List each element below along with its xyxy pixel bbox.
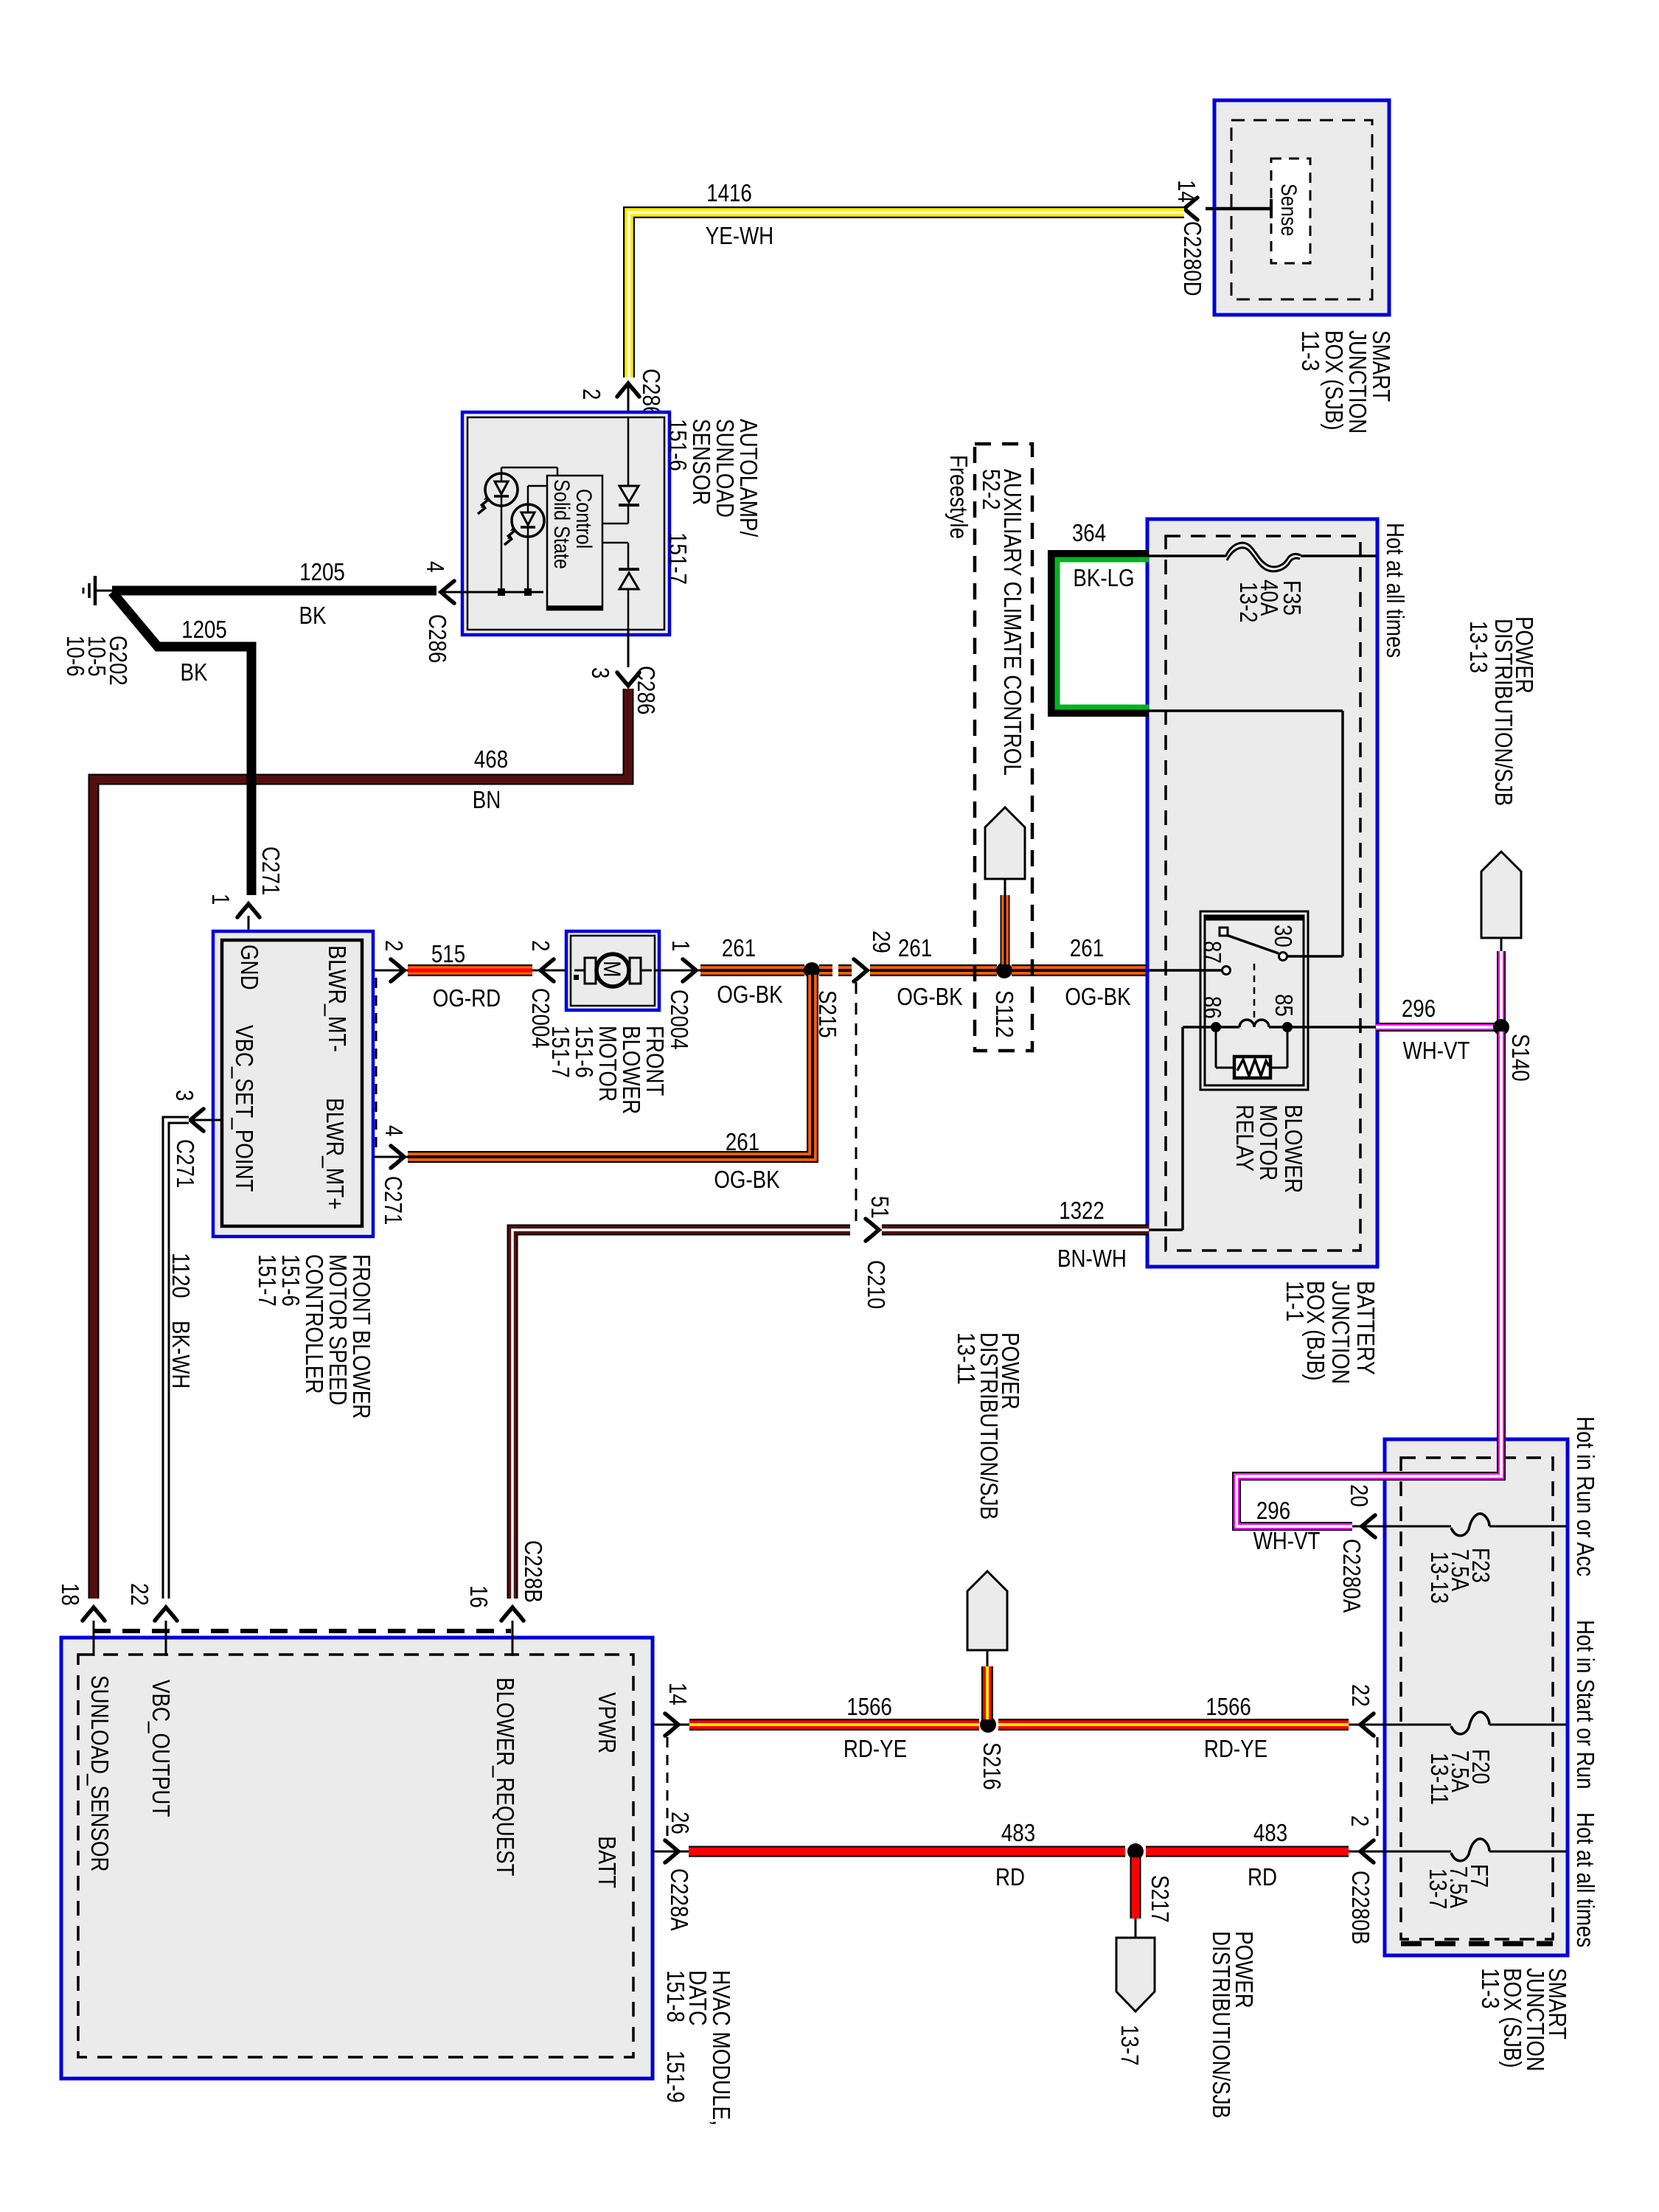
battery junction box (BJB) 11-1 bbox=[1147, 519, 1377, 1267]
label BN-WH bbox=[1057, 1245, 1127, 1272]
splice S215 bbox=[804, 962, 820, 978]
SJB connector dashed link bbox=[1377, 1737, 1379, 1842]
svg-text:RD-YE: RD-YE bbox=[844, 1735, 907, 1762]
svg-text:S112: S112 bbox=[991, 990, 1018, 1038]
svg-text:14: 14 bbox=[664, 1683, 692, 1705]
label 296 b bbox=[1256, 1497, 1290, 1524]
svg-text:11-1: 11-1 bbox=[1281, 1281, 1309, 1322]
connector C286 pin 3 arrow bbox=[617, 630, 639, 686]
svg-text:M: M bbox=[599, 961, 625, 977]
label BN bbox=[473, 786, 501, 813]
wire SJB row1 bbox=[1385, 1526, 1566, 1528]
label Hot at all times bottom bbox=[1572, 1812, 1599, 1947]
wire 261 OG-BK motor to S215 bbox=[700, 964, 804, 976]
label YE-WH bbox=[706, 222, 773, 249]
svg-text:151-7: 151-7 bbox=[254, 1254, 281, 1307]
label 1120 bbox=[167, 1253, 195, 1298]
label S140 bbox=[1507, 1034, 1534, 1082]
wire pentagon to S140 bbox=[1500, 938, 1503, 1023]
connector C228 pin 22 arrow bbox=[155, 1607, 177, 1656]
svg-text:13-13: 13-13 bbox=[1426, 1551, 1453, 1604]
svg-text:296: 296 bbox=[1402, 995, 1436, 1022]
svg-text:VBC_SET_POINT: VBC_SET_POINT bbox=[231, 1025, 258, 1192]
svg-text:C271: C271 bbox=[380, 1176, 407, 1225]
connector C210 label bbox=[863, 1260, 890, 1309]
svg-text:BN-WH: BN-WH bbox=[1057, 1245, 1127, 1272]
wire Sense to pin 14 bbox=[1206, 199, 1271, 218]
label RD-YE b bbox=[1204, 1735, 1267, 1762]
relay switch arm bbox=[1226, 935, 1279, 953]
label 1416 bbox=[706, 179, 752, 206]
label 1205 b bbox=[181, 616, 227, 643]
wire 296 WH-VT BJB to S140 bbox=[1376, 1023, 1497, 1032]
connector C286 pin 4 arrow bbox=[441, 581, 467, 603]
relay pin 30 label bbox=[1270, 925, 1297, 947]
svg-text:26: 26 bbox=[667, 1812, 694, 1834]
label F7 7.5A 13-7 bbox=[1425, 1864, 1493, 1910]
svg-text:85: 85 bbox=[1270, 994, 1298, 1017]
label Hot in Run or Acc bbox=[1572, 1416, 1599, 1576]
svg-text:2: 2 bbox=[527, 940, 554, 951]
label 1566 a bbox=[846, 1693, 892, 1720]
label RD a bbox=[995, 1863, 1025, 1891]
connector C2280D pin 14 arrow bbox=[1184, 198, 1197, 220]
svg-text:52-2: 52-2 bbox=[978, 469, 1005, 510]
fuse F20 bbox=[1451, 1712, 1489, 1734]
pin 2 label controller bbox=[380, 940, 408, 951]
svg-text:C286: C286 bbox=[424, 614, 451, 663]
wire 296 WH-VT S140 to SJB bbox=[1237, 1032, 1501, 1526]
diode D2 bbox=[602, 543, 639, 630]
svg-text:AUXILIARY CLIMATE CONTROL: AUXILIARY CLIMATE CONTROL bbox=[999, 469, 1026, 776]
label 261 fourth bbox=[726, 1128, 759, 1155]
pin 22 label HVAC bbox=[126, 1583, 153, 1606]
svg-text:11-3: 11-3 bbox=[1477, 1968, 1504, 2009]
svg-text:13-13: 13-13 bbox=[1465, 621, 1492, 673]
connector C2280D label bbox=[1179, 221, 1206, 296]
svg-text:Sense: Sense bbox=[1276, 184, 1301, 236]
pin 2 label bbox=[578, 389, 605, 400]
svg-text:C2004: C2004 bbox=[666, 990, 693, 1050]
svg-text:BATTERY: BATTERY bbox=[1352, 1281, 1380, 1375]
connector C271 label pin4 bbox=[380, 1176, 407, 1225]
connector C228A label bbox=[666, 1868, 693, 1931]
svg-text:YE-WH: YE-WH bbox=[706, 222, 773, 249]
label FRONT BLOWER MOTOR 151-6 151-7 bbox=[547, 1026, 669, 1114]
auxiliary climate control dashed box bbox=[975, 444, 1032, 1051]
svg-text:1: 1 bbox=[207, 894, 234, 905]
wire hot feed to fuse F35 bbox=[1149, 554, 1376, 557]
label BLWR_MT+ bbox=[321, 1098, 349, 1210]
svg-text:Hot in Run or Acc: Hot in Run or Acc bbox=[1572, 1416, 1599, 1576]
svg-text:C2280A: C2280A bbox=[1338, 1539, 1366, 1613]
svg-text:151-7: 151-7 bbox=[547, 1026, 574, 1078]
smart junction box (SJB) 11-3 top bbox=[1214, 100, 1389, 315]
label VPWR bbox=[594, 1692, 621, 1753]
wire SJB row3 bbox=[1385, 1851, 1566, 1853]
svg-text:Solid State: Solid State bbox=[549, 479, 574, 569]
connector C271 label pin3 bbox=[172, 1139, 199, 1188]
label Freestyle bbox=[945, 455, 973, 539]
svg-text:86: 86 bbox=[1199, 996, 1226, 1019]
svg-text:BK: BK bbox=[299, 602, 327, 629]
svg-text:Hot at all times: Hot at all times bbox=[1572, 1812, 1599, 1947]
svg-text:C210: C210 bbox=[863, 1260, 890, 1309]
HVAC connector dashed link bbox=[667, 1737, 669, 1842]
label BATTERY JUNCTION BOX (BJB) 11-1 bbox=[1281, 1281, 1380, 1384]
connector C286 label pin3 bbox=[633, 666, 660, 714]
svg-text:151-7: 151-7 bbox=[664, 532, 692, 585]
label BK-WH bbox=[167, 1321, 195, 1388]
label OG-RD bbox=[433, 984, 501, 1012]
svg-text:C271: C271 bbox=[172, 1139, 199, 1188]
label FRONT BLOWER MOTOR SPEED CONTROLLER 151-6 151-7 bbox=[254, 1254, 375, 1419]
relay pin 87 label bbox=[1199, 941, 1226, 964]
svg-text:151-6: 151-6 bbox=[664, 419, 692, 471]
pin 29 label bbox=[868, 931, 895, 953]
svg-text:151-9: 151-9 bbox=[662, 2051, 689, 2103]
svg-text:29: 29 bbox=[868, 931, 895, 953]
connector C2280B pin 22 arrow bbox=[1349, 1714, 1385, 1736]
svg-text:261: 261 bbox=[898, 934, 932, 961]
connector C210 pin 51 arrow bbox=[866, 1219, 879, 1241]
svg-text:51: 51 bbox=[866, 1196, 894, 1219]
svg-text:OG-BK: OG-BK bbox=[717, 981, 782, 1008]
svg-text:DISTRIBUTION/SJB: DISTRIBUTION/SJB bbox=[1490, 619, 1517, 806]
svg-text:BLOWER_REQUEST: BLOWER_REQUEST bbox=[492, 1677, 519, 1877]
svg-text:11-3: 11-3 bbox=[1297, 330, 1324, 372]
label OG-BK first bbox=[717, 981, 782, 1008]
photodiode PD2 bbox=[504, 504, 544, 545]
svg-text:4: 4 bbox=[380, 1125, 408, 1136]
connector C271 pin 2 arrow bbox=[373, 959, 408, 981]
svg-text:WH-VT: WH-VT bbox=[1403, 1037, 1470, 1064]
connector C2004 pin 1 arrow bbox=[655, 959, 700, 981]
svg-text:22: 22 bbox=[126, 1583, 153, 1606]
splice S216 bbox=[980, 1717, 996, 1733]
relay shunt resistor bbox=[1216, 1027, 1287, 1078]
svg-text:30: 30 bbox=[1270, 925, 1297, 947]
wire 261 OG-BK S112 to BJB bbox=[1012, 964, 1149, 976]
svg-text:Hot at all times: Hot at all times bbox=[1382, 523, 1409, 658]
connector C286 label pin4 bbox=[424, 614, 451, 663]
svg-text:13-7: 13-7 bbox=[1116, 2025, 1144, 2066]
blower motor relay box bbox=[1200, 911, 1308, 1090]
label AUXILIARY CLIMATE CONTROL 52-2 bbox=[978, 469, 1026, 776]
wire 1416 YE-WH bbox=[629, 212, 1184, 378]
svg-text:DISTRIBUTION/SJB: DISTRIBUTION/SJB bbox=[1208, 1931, 1235, 2118]
connector C210 pin 29 arrow bbox=[854, 959, 867, 981]
label GND bbox=[236, 945, 263, 990]
svg-text:C286: C286 bbox=[638, 369, 665, 417]
label G202 10-5 10-6 bbox=[62, 636, 132, 686]
pin 20 label bbox=[1346, 1484, 1373, 1507]
svg-text:4: 4 bbox=[422, 561, 449, 572]
label 515 bbox=[431, 940, 465, 967]
connector C271 label pin1 bbox=[257, 846, 285, 895]
sensor internal wiring bbox=[467, 467, 557, 592]
svg-text:468: 468 bbox=[474, 745, 508, 773]
label AUTOLAMP/ SUNLOAD SENSOR 151-6 151-7 bbox=[664, 419, 762, 585]
wire SJB row2 bbox=[1385, 1724, 1566, 1726]
svg-text:SUNLOAD_SENSOR: SUNLOAD_SENSOR bbox=[86, 1675, 114, 1872]
label RD-YE a bbox=[844, 1735, 907, 1762]
pin 3 label controller bbox=[171, 1090, 198, 1101]
pin 4 label bbox=[422, 561, 449, 572]
pin 4 label controller bbox=[380, 1125, 408, 1136]
label POWER DISTRIBUTION/SJB 13-13 bbox=[1465, 616, 1538, 806]
connector C2280A label bbox=[1338, 1539, 1366, 1613]
relay coil bbox=[1220, 1020, 1283, 1027]
label OG-BK third bbox=[1065, 983, 1130, 1010]
svg-text:VPWR: VPWR bbox=[594, 1692, 621, 1753]
svg-text:483: 483 bbox=[1253, 1819, 1287, 1846]
svg-text:BLWR_MT-: BLWR_MT- bbox=[324, 945, 351, 1052]
connector C228B pin 16 arrow bbox=[501, 1607, 524, 1656]
svg-text:2: 2 bbox=[380, 940, 408, 951]
svg-text:VBC_OUTPUT: VBC_OUTPUT bbox=[147, 1680, 175, 1817]
connector C210 dashed line bbox=[855, 982, 858, 1222]
connector C271 pin 4 arrow bbox=[373, 1146, 408, 1168]
S216 connector pentagon bbox=[967, 1571, 1007, 1650]
label 261 second bbox=[898, 934, 932, 961]
wire 483 RD right bbox=[1146, 1846, 1349, 1857]
ground G202 symbol bbox=[83, 576, 115, 605]
label WH-VT a bbox=[1403, 1037, 1470, 1064]
HVAC module DATC box bbox=[61, 1638, 653, 2079]
wire 515 OG-RD bbox=[408, 964, 532, 976]
wire C228B BN-WH vertical bbox=[512, 1230, 850, 1599]
diode D1 bbox=[602, 417, 639, 524]
wire 1205 BK to sensor bbox=[112, 586, 437, 596]
svg-text:S216: S216 bbox=[978, 1742, 1006, 1790]
relay pin 86 label bbox=[1199, 996, 1226, 1019]
svg-text:S217: S217 bbox=[1147, 1875, 1174, 1923]
connector C228A pin 14 arrow bbox=[653, 1714, 689, 1736]
svg-text:GND: GND bbox=[236, 945, 263, 990]
svg-text:BATT: BATT bbox=[594, 1836, 621, 1888]
label S215 bbox=[814, 990, 841, 1038]
connector C271 pin 1 arrow bbox=[237, 904, 260, 941]
label 483 a bbox=[1001, 1819, 1035, 1846]
pin 3 label bbox=[587, 667, 614, 678]
svg-text:RD: RD bbox=[1248, 1863, 1277, 1891]
pin 16 label bbox=[465, 1585, 493, 1608]
svg-text:1120: 1120 bbox=[167, 1253, 195, 1298]
pin 2 label motor bbox=[527, 940, 554, 951]
pin 22 label SJB bbox=[1347, 1684, 1374, 1707]
label RD b bbox=[1248, 1863, 1277, 1891]
svg-text:C2280B: C2280B bbox=[1347, 1871, 1374, 1944]
label BLOWER_REQUEST bbox=[492, 1677, 519, 1877]
svg-text:261: 261 bbox=[722, 934, 756, 961]
label SUNLOAD_SENSOR bbox=[86, 1675, 114, 1872]
label S112 bbox=[991, 990, 1018, 1038]
svg-text:OG-BK: OG-BK bbox=[714, 1166, 779, 1193]
label SMART JUNCTION BOX (SJB) 11-3 bottom bbox=[1477, 1968, 1571, 2071]
label S217 bbox=[1147, 1875, 1174, 1923]
svg-text:1416: 1416 bbox=[706, 179, 752, 206]
HVAC top dashed connector line bbox=[93, 1629, 511, 1633]
svg-text:483: 483 bbox=[1001, 1819, 1035, 1846]
connector C2004 label left bbox=[527, 988, 554, 1048]
svg-text:Freestyle: Freestyle bbox=[945, 455, 973, 539]
label 261 third bbox=[1070, 934, 1104, 961]
S140 connector pentagon bbox=[1481, 852, 1521, 938]
svg-text:87: 87 bbox=[1199, 941, 1226, 964]
label 468 bbox=[474, 745, 508, 773]
connector C286 label top bbox=[638, 369, 665, 417]
connector C2004 pin 2 arrow bbox=[532, 959, 568, 981]
relay actuator dashed link bbox=[1253, 964, 1256, 1020]
wire feed to relay 30 bbox=[1149, 711, 1343, 956]
relay pivot 87 bbox=[1220, 928, 1228, 936]
svg-text:14: 14 bbox=[1173, 180, 1200, 203]
svg-text:1205: 1205 bbox=[181, 616, 227, 643]
pin 1 label bbox=[207, 894, 234, 905]
svg-text:261: 261 bbox=[726, 1128, 759, 1155]
connector C228A pin 26 arrow bbox=[653, 1840, 689, 1863]
svg-text:Hot in Start or Run: Hot in Start or Run bbox=[1572, 1620, 1599, 1790]
wire 483 RD left bbox=[689, 1846, 1125, 1857]
junction squares bbox=[498, 588, 532, 596]
label F35 40A 13-2 bbox=[1235, 580, 1306, 623]
splice S112 bbox=[996, 962, 1012, 978]
aux connector pentagon bbox=[985, 807, 1025, 879]
svg-text:13-7: 13-7 bbox=[1425, 1868, 1452, 1910]
motor symbol M bbox=[574, 954, 652, 987]
wire 1566 RD-YE right bbox=[998, 1719, 1349, 1731]
wire 261 dashes at C210 bbox=[819, 964, 852, 976]
svg-text:2: 2 bbox=[578, 389, 605, 400]
pin 18 label bbox=[57, 1583, 84, 1606]
svg-text:BK-WH: BK-WH bbox=[167, 1321, 195, 1388]
S217 connector pentagon bbox=[1116, 1938, 1155, 2011]
label F23 7.5A 13-13 bbox=[1426, 1548, 1495, 1604]
connector C2280A pin 20 arrow bbox=[1352, 1515, 1385, 1537]
svg-text:S140: S140 bbox=[1507, 1034, 1534, 1082]
label BK b bbox=[181, 658, 208, 686]
wire 1120 BK-WH bbox=[166, 1120, 189, 1599]
pin 14 label bbox=[1173, 180, 1200, 203]
connector C2280B label bbox=[1347, 1871, 1374, 1944]
wire to S112 bbox=[1004, 879, 1006, 964]
label OG-BK second bbox=[897, 983, 962, 1010]
label BLOWER MOTOR RELAY bbox=[1231, 1105, 1307, 1193]
fuse F23 bbox=[1451, 1514, 1489, 1536]
svg-text:296: 296 bbox=[1256, 1497, 1290, 1524]
svg-text:13-11: 13-11 bbox=[953, 1332, 980, 1385]
svg-text:BK: BK bbox=[181, 658, 208, 686]
relay coil junction 85 bbox=[1282, 1022, 1293, 1032]
svg-text:OG-BK: OG-BK bbox=[897, 983, 962, 1010]
svg-text:C228A: C228A bbox=[666, 1868, 693, 1931]
photodiode PD1 bbox=[478, 473, 518, 514]
svg-text:16: 16 bbox=[465, 1585, 493, 1608]
svg-text:BK-LG: BK-LG bbox=[1073, 564, 1134, 591]
label HVAC MODULE DATC 151-8 151-9 bbox=[662, 1970, 735, 2126]
pin 14 label HVAC bbox=[664, 1683, 692, 1705]
label BLWR_MT- bbox=[324, 945, 351, 1052]
svg-text:1: 1 bbox=[667, 940, 695, 951]
fuse F35 bbox=[1225, 543, 1301, 571]
svg-text:BN: BN bbox=[473, 786, 501, 813]
smart junction box (SJB) 11-3 bottom bbox=[1385, 1439, 1568, 1955]
wire 468 BN bbox=[94, 689, 628, 1599]
wire 261 OG-BK S215 to S112 bbox=[870, 964, 997, 976]
svg-text:20: 20 bbox=[1346, 1484, 1373, 1507]
label 1322 bbox=[1059, 1197, 1105, 1224]
svg-text:RD: RD bbox=[995, 1863, 1025, 1891]
svg-text:3: 3 bbox=[171, 1090, 198, 1101]
label POWER DISTRIBUTION/SJB 13-11 bbox=[953, 1332, 1024, 1520]
svg-text:10-6: 10-6 bbox=[62, 636, 89, 677]
svg-text:1205: 1205 bbox=[299, 558, 345, 585]
svg-text:OG-BK: OG-BK bbox=[1065, 983, 1130, 1010]
label SMART JUNCTION BOX (SJB) 11-3 bbox=[1297, 330, 1395, 434]
svg-text:18: 18 bbox=[57, 1583, 84, 1606]
svg-text:WH-VT: WH-VT bbox=[1253, 1527, 1321, 1554]
wire S217 down bbox=[1130, 1857, 1141, 1938]
label F20 7.5A 13-11 bbox=[1426, 1749, 1495, 1805]
autolamp/sunload sensor box bbox=[462, 412, 669, 635]
svg-text:C286: C286 bbox=[633, 666, 660, 714]
label S216 bbox=[978, 1742, 1006, 1790]
control solid state block bbox=[547, 476, 602, 610]
svg-text:RD-YE: RD-YE bbox=[1204, 1735, 1267, 1762]
label BK-LG bbox=[1073, 564, 1134, 591]
connector C286 pin 2 arrow bbox=[617, 383, 639, 413]
wire 1205 BK to controller bbox=[112, 592, 251, 895]
svg-text:BLOWER: BLOWER bbox=[1280, 1105, 1307, 1193]
connector C271 dashed line bbox=[375, 978, 378, 1152]
label BK a bbox=[299, 602, 327, 629]
label VBC_OUTPUT bbox=[147, 1680, 175, 1817]
svg-text:13-2: 13-2 bbox=[1235, 582, 1262, 623]
pin 1 label motor bbox=[667, 940, 695, 951]
label 1205 a bbox=[299, 558, 345, 585]
svg-text:C228B: C228B bbox=[520, 1540, 547, 1603]
pin 26 label bbox=[667, 1812, 694, 1834]
svg-text:RELAY: RELAY bbox=[1231, 1105, 1259, 1172]
fuse F7 bbox=[1451, 1839, 1489, 1861]
label BATT bbox=[594, 1836, 621, 1888]
label 1566 b bbox=[1206, 1693, 1251, 1720]
svg-text:1566: 1566 bbox=[846, 1693, 892, 1720]
connector C271 pin 3 arrow bbox=[190, 1109, 222, 1131]
wire 1322 BN-WH bbox=[882, 1225, 1149, 1236]
label 296 a bbox=[1402, 995, 1436, 1022]
svg-text:2: 2 bbox=[1346, 1815, 1374, 1826]
front blower motor speed controller box bbox=[213, 931, 373, 1237]
svg-text:OG-RD: OG-RD bbox=[433, 984, 501, 1012]
svg-text:151-8: 151-8 bbox=[662, 1970, 689, 2023]
label 483 b bbox=[1253, 1819, 1287, 1846]
relay pin 85 label bbox=[1270, 994, 1298, 1017]
connector C2004 label right bbox=[666, 990, 693, 1050]
wire pentagon to S216 bbox=[987, 1650, 989, 1719]
splice S140 bbox=[1493, 1019, 1509, 1035]
label Hot in Start or Run bbox=[1572, 1620, 1599, 1790]
svg-text:C271: C271 bbox=[257, 846, 285, 895]
svg-text:BLWR_MT+: BLWR_MT+ bbox=[321, 1098, 349, 1210]
svg-text:364: 364 bbox=[1072, 519, 1106, 546]
label VBC_SET_POINT bbox=[231, 1025, 258, 1192]
svg-text:1566: 1566 bbox=[1206, 1693, 1251, 1720]
wire 364 BK-LG bbox=[1054, 556, 1149, 711]
relay contact 87 wire bbox=[1149, 967, 1231, 975]
label OG-BK fourth bbox=[714, 1166, 779, 1193]
